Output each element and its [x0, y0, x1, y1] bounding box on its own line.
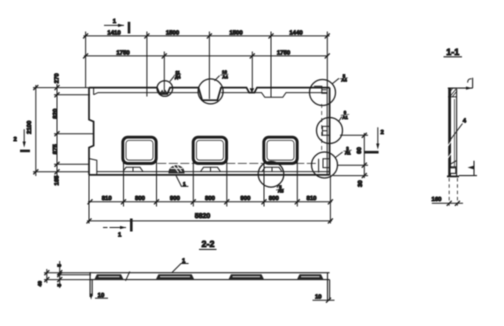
svg-text:1: 1 — [118, 232, 122, 239]
svg-text:5820: 5820 — [195, 213, 211, 220]
svg-text:А4: А4 — [222, 75, 228, 80]
svg-text:810: 810 — [102, 195, 113, 202]
svg-text:1750: 1750 — [116, 49, 130, 56]
svg-text:30: 30 — [357, 180, 364, 187]
svg-text:10: 10 — [315, 294, 322, 301]
svg-text:5: 5 — [57, 264, 63, 267]
svg-text:800: 800 — [205, 195, 216, 202]
svg-text:1-1: 1-1 — [446, 47, 459, 57]
svg-text:165: 165 — [54, 175, 61, 186]
svg-text:Л3: Л3 — [278, 189, 284, 194]
svg-text:900: 900 — [170, 195, 181, 202]
svg-text:Л1: Л1 — [345, 151, 351, 156]
svg-text:1410: 1410 — [107, 29, 121, 36]
svg-text:820: 820 — [52, 108, 59, 119]
svg-text:800: 800 — [135, 195, 146, 202]
svg-text:10: 10 — [98, 292, 105, 299]
svg-text:160: 160 — [431, 196, 442, 203]
svg-text:2: 2 — [14, 136, 18, 143]
svg-text:40: 40 — [38, 281, 44, 287]
svg-text:810: 810 — [306, 195, 317, 202]
svg-text:1500: 1500 — [166, 29, 180, 36]
svg-text:5: 5 — [57, 284, 63, 287]
svg-text:2100: 2100 — [26, 120, 33, 134]
svg-text:2: 2 — [381, 129, 385, 136]
svg-text:1: 1 — [113, 18, 117, 25]
svg-text:1: 1 — [183, 182, 186, 188]
svg-text:4: 4 — [463, 117, 467, 124]
svg-text:800: 800 — [269, 195, 280, 202]
svg-text:1440: 1440 — [289, 29, 303, 36]
svg-text:270: 270 — [54, 73, 61, 84]
svg-text:А1: А1 — [342, 115, 348, 120]
svg-text:1500: 1500 — [229, 29, 243, 36]
svg-text:1750: 1750 — [277, 49, 291, 56]
svg-text:60: 60 — [356, 147, 363, 154]
svg-text:2-2: 2-2 — [201, 239, 214, 249]
svg-text:А4: А4 — [341, 78, 347, 83]
svg-text:Д4: Д4 — [175, 74, 181, 79]
svg-text:875: 875 — [52, 144, 59, 155]
svg-text:900: 900 — [240, 195, 251, 202]
